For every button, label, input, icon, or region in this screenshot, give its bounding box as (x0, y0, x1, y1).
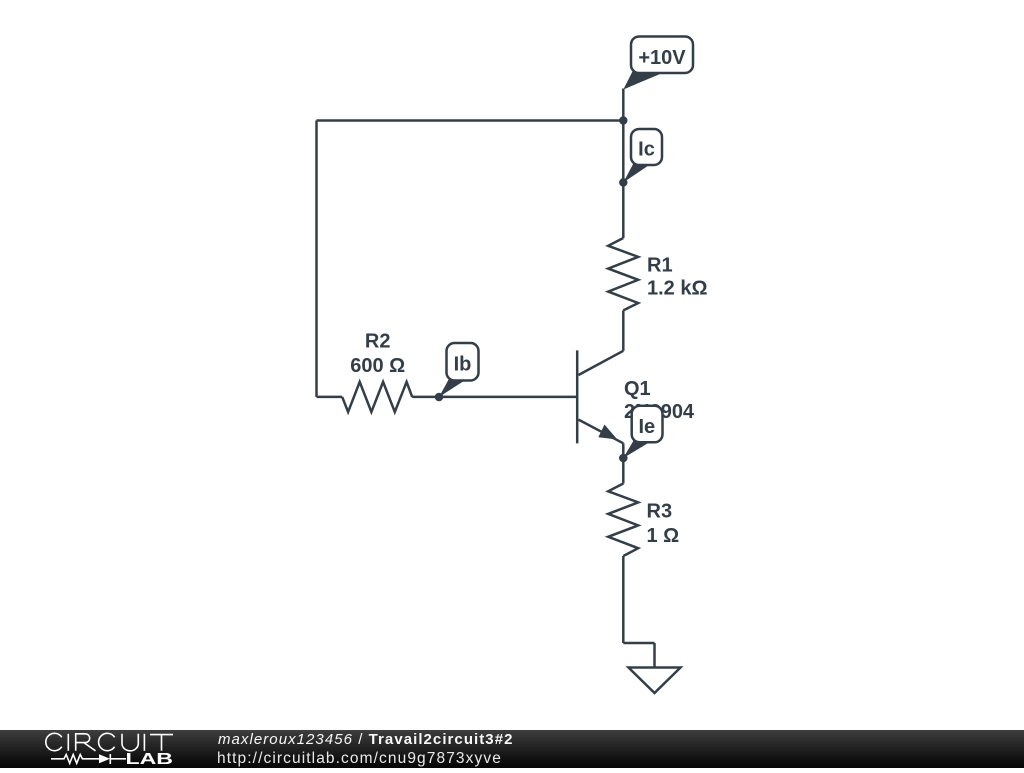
wire R3 bottom lead (622, 556, 625, 643)
footer line 1 (218, 731, 513, 748)
wire emitter lead (622, 443, 625, 483)
wire jog vertical (653, 643, 656, 668)
callout box +10V (631, 37, 693, 74)
transistor Q1 collector diagonal (579, 351, 624, 375)
svg-text:R3: R3 (647, 501, 673, 523)
node Ib probe (435, 393, 444, 402)
node Ic probe (619, 178, 627, 186)
resistor R1 (608, 238, 638, 310)
svg-text:LAB: LAB (126, 751, 174, 768)
transistor Q1 emitter diagonal (579, 420, 624, 444)
callout box Ib (447, 343, 479, 381)
footer bar (0, 730, 1024, 768)
wire top horizontal (317, 119, 624, 122)
node Ie probe (619, 454, 628, 463)
svg-text:600 Ω: 600 Ω (350, 355, 405, 377)
svg-text:Ib: Ib (454, 354, 472, 376)
callout tail Ib (439, 379, 464, 398)
resistor R3 (608, 484, 638, 557)
wire left vertical (315, 121, 318, 397)
CircuitLab logo (0, 730, 200, 768)
svg-text:+10V: +10V (638, 47, 686, 69)
wire R2 left lead (317, 396, 343, 399)
footer line 2 (217, 750, 502, 768)
wire collector vertical (622, 121, 625, 239)
svg-text:Ic: Ic (638, 139, 655, 161)
resistor R2 (342, 382, 412, 412)
svg-text:1 Ω: 1 Ω (647, 525, 680, 547)
wire +10V lead (622, 89, 625, 121)
node junction top (619, 116, 627, 124)
callout tail Ic (623, 163, 648, 183)
transistor Q1 base bar (576, 350, 579, 443)
wire jog horizontal (623, 642, 654, 645)
ground (629, 668, 681, 694)
wire base (412, 396, 577, 399)
callout tail Ie (623, 440, 648, 458)
svg-text:R2: R2 (365, 331, 391, 353)
callout tail +10V (623, 71, 660, 90)
callout box Ie (632, 406, 663, 443)
svg-text:1.2 kΩ: 1.2 kΩ (647, 278, 708, 300)
callout box Ic (631, 129, 662, 165)
wire R1 bottom lead (622, 310, 625, 350)
svg-text:Q1: Q1 (624, 378, 651, 400)
transistor Q1 emitter arrow (598, 425, 617, 440)
svg-text:R1: R1 (647, 255, 673, 277)
svg-text:Ie: Ie (638, 416, 655, 438)
